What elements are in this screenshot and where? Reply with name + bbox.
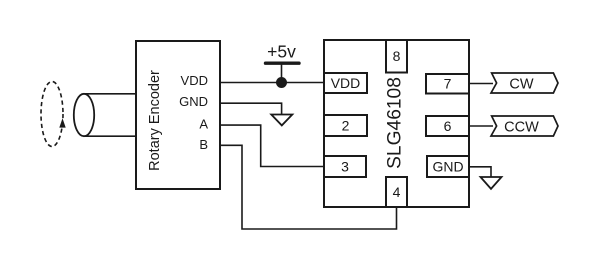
svg-text:2: 2	[342, 118, 350, 134]
svg-text:Rotary Encoder: Rotary Encoder	[147, 70, 163, 171]
junction dot on VDD net	[276, 77, 287, 88]
IC pin 3 box	[324, 156, 366, 177]
svg-text:A: A	[199, 117, 208, 132]
IC pin 7 box	[426, 74, 469, 94]
svg-text:CW: CW	[509, 76, 533, 92]
svg-text:SLG46108: SLG46108	[385, 77, 406, 169]
svg-text:CCW: CCW	[504, 119, 539, 135]
output flag CCW	[491, 116, 558, 136]
svg-text:GND: GND	[179, 94, 208, 109]
wire IC GND pin to ground	[469, 167, 491, 177]
output flag CW	[491, 73, 558, 93]
svg-text:VDD: VDD	[331, 75, 361, 91]
svg-text:GND: GND	[432, 159, 463, 175]
wire A net: encoder A to IC pin 3	[220, 125, 324, 166]
IC U1 SLG46108 body	[324, 40, 469, 207]
svg-text:VDD: VDD	[181, 73, 208, 88]
wire pin 7 to CW flag	[469, 83, 493, 85]
svg-text:8: 8	[393, 48, 401, 64]
rotary encoder rotation arrow	[59, 118, 65, 127]
svg-text:4: 4	[393, 184, 401, 200]
IC pin VDD box	[324, 73, 367, 93]
svg-text:7: 7	[444, 76, 452, 92]
rotary encoder shaft (cylinder)	[74, 94, 137, 136]
IC pin 2 box	[324, 115, 367, 136]
ground symbol (left)	[271, 115, 292, 126]
wire pin 6 to CCW flag	[469, 125, 493, 127]
IC pin 6 box	[426, 116, 469, 136]
ground symbol (right)	[481, 177, 502, 189]
IC pin 8 box	[386, 40, 407, 73]
IC pin 4 box	[386, 177, 407, 207]
rotary encoder body	[136, 41, 220, 189]
svg-text:B: B	[199, 137, 208, 152]
rotary encoder rotation-direction dashed ellipse	[41, 82, 63, 147]
wire GND net: encoder GND to ground	[220, 103, 282, 114]
IC pin GND box	[427, 156, 469, 177]
svg-text:3: 3	[341, 159, 349, 175]
svg-text:6: 6	[444, 118, 452, 134]
wire VDD net: encoder VDD to IC pin VDD	[220, 82, 324, 84]
+5v power supply symbol	[266, 42, 300, 83]
wire B net: encoder B to IC pin 4	[220, 145, 397, 229]
svg-text:+5v: +5v	[267, 42, 296, 62]
